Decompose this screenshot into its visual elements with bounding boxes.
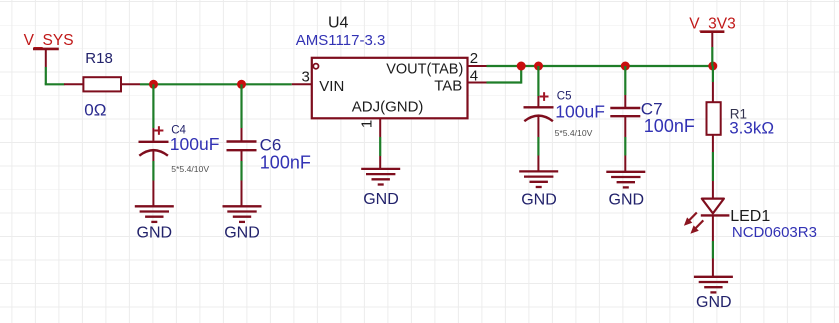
- wire C5 to GND: [537, 137, 539, 156]
- capacitor C4: [139, 125, 220, 175]
- capacitor C7: [610, 95, 695, 137]
- wire down to C6: [240, 84, 242, 128]
- pin 3 VIN: [292, 68, 312, 85]
- svg-text:2: 2: [470, 50, 478, 67]
- power port V_3V3: [689, 16, 736, 48]
- wire ADJ: [379, 137, 381, 156]
- svg-text:U4: U4: [328, 15, 349, 32]
- junction node TAB: [517, 62, 526, 71]
- wire node to R1: [712, 66, 714, 82]
- junction node C5: [534, 62, 543, 71]
- resistor R18: [64, 50, 140, 119]
- capacitor C6: [227, 128, 311, 172]
- svg-text:GND: GND: [224, 224, 260, 241]
- svg-text:3.3kΩ: 3.3kΩ: [729, 119, 774, 138]
- svg-text:GND: GND: [363, 191, 399, 208]
- wire down to C4: [152, 84, 154, 128]
- svg-text:R18: R18: [85, 50, 113, 67]
- svg-text:AMS1117-3.3: AMS1117-3.3: [296, 32, 386, 49]
- wire TAB horizontal: [487, 81, 522, 83]
- junction node C6: [237, 80, 246, 89]
- svg-text:1: 1: [359, 120, 376, 128]
- op-amp U4 AMS1117-3.3: [296, 15, 468, 119]
- svg-text:5*5.4/10V: 5*5.4/10V: [555, 128, 593, 138]
- pin 4 TAB: [468, 67, 487, 84]
- ground below C6: [223, 181, 262, 242]
- svg-text:4: 4: [470, 67, 478, 84]
- wire R1 to LED1: [712, 152, 714, 181]
- wire TAB riser: [520, 66, 522, 84]
- ground below C5: [519, 156, 558, 209]
- svg-text:100nF: 100nF: [260, 152, 311, 172]
- svg-text:VOUT(TAB): VOUT(TAB): [386, 62, 463, 78]
- junction node C4: [149, 80, 158, 89]
- svg-text:LED1: LED1: [730, 208, 770, 225]
- pin 2 VOUT: [468, 50, 487, 67]
- ground below C7: [606, 156, 645, 209]
- svg-text:GND: GND: [696, 294, 732, 311]
- svg-text:0Ω: 0Ω: [84, 100, 106, 119]
- svg-text:5*5.4/10V: 5*5.4/10V: [171, 164, 209, 174]
- svg-text:V_3V3: V_3V3: [689, 16, 736, 33]
- ground below ADJ: [361, 156, 400, 208]
- wire down to C7: [624, 66, 626, 95]
- capacitor C5: [524, 90, 605, 138]
- svg-text:C5: C5: [557, 90, 572, 102]
- svg-text:100uF: 100uF: [170, 134, 220, 154]
- wire C4 to GND: [152, 161, 154, 181]
- LED LED1: [684, 181, 817, 241]
- wire V_3V3 to node: [711, 47, 713, 66]
- wire C7 to GND: [624, 137, 626, 156]
- junction node C7: [621, 62, 630, 71]
- svg-text:GND: GND: [137, 224, 173, 241]
- power port V_SYS: [24, 32, 74, 67]
- svg-text:TAB: TAB: [434, 77, 462, 94]
- wire C6 to GND: [240, 161, 242, 181]
- svg-text:GND: GND: [609, 192, 645, 209]
- svg-text:V_SYS: V_SYS: [24, 32, 74, 49]
- svg-text:VIN: VIN: [319, 78, 344, 95]
- wire R18 to VIN: [140, 83, 292, 85]
- pin 1 ADJ: [359, 118, 381, 137]
- wire VOUT to V_3V3 node: [487, 65, 714, 67]
- svg-text:100uF: 100uF: [555, 102, 605, 122]
- svg-text:NCD0603R3: NCD0603R3: [732, 224, 817, 241]
- junction node V_3V3: [708, 62, 717, 71]
- wire down to C5: [537, 66, 539, 96]
- ground below C4: [135, 181, 174, 242]
- svg-text:3: 3: [302, 68, 310, 85]
- wire LED1 to GND: [712, 241, 714, 259]
- svg-text:GND: GND: [521, 192, 557, 209]
- svg-text:100nF: 100nF: [644, 116, 695, 136]
- resistor R1: [707, 82, 775, 152]
- wire V_SYS to R18: [45, 83, 65, 85]
- wire V_SYS vertical: [45, 67, 47, 84]
- svg-text:ADJ(GND): ADJ(GND): [352, 99, 424, 116]
- ground below LED1: [694, 259, 733, 311]
